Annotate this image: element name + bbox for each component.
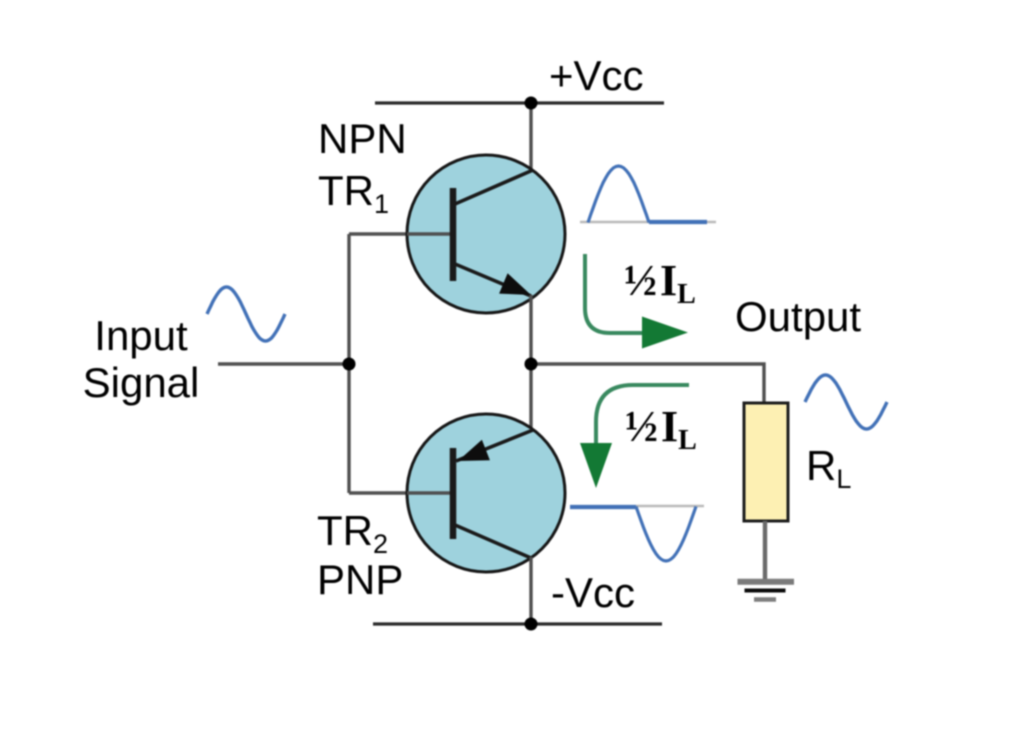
TR1 emitter arrow [499,273,531,295]
transistor TR1 (NPN) [407,155,565,313]
TR2 body circle [407,414,565,572]
node output junction [525,358,538,371]
waveform positive half-cycle [588,166,649,223]
waveform input sine [207,287,285,341]
svg-text:TR1: TR1 [318,167,389,219]
svg-text:Output: Output [735,293,861,340]
node input junction [343,358,356,371]
waveform negative half-cycle baseline [636,505,704,507]
TR1 emitter lead [455,264,531,296]
wire base bus vertical [347,234,350,493]
TR2 collector lead [455,525,531,558]
svg-text:NPN: NPN [318,115,407,162]
TR1 body circle [407,155,565,313]
svg-text:TR2: TR2 [317,507,388,559]
wire +Vcc rail to TR1 collector [529,103,532,172]
svg-text:+Vcc: +Vcc [549,52,644,99]
-Vcc power rail [373,622,662,625]
TR2 base bar [450,448,457,539]
TR1 base bar [450,188,457,281]
wire input signal lead [218,362,349,365]
wire TR1 emitter to output node [529,295,532,365]
svg-text:-Vcc: -Vcc [551,569,635,616]
svg-text:RL: RL [806,442,851,494]
waveform positive half-cycle baseline [580,221,716,223]
svg-text:Input: Input [94,312,188,359]
node +Vcc junction [525,97,538,110]
ground [738,582,795,600]
svg-text:½IL: ½IL [625,402,697,456]
node -Vcc junction [525,618,538,631]
waveform negative half-cycle [636,507,696,562]
svg-text:Signal: Signal [83,359,200,406]
wire RL to ground [763,521,767,579]
wire output to load [531,364,764,404]
TR1 collector lead [455,170,533,204]
waveform negative half-cycle flat segment [570,505,636,509]
waveform positive half-cycle flat segment [649,220,707,224]
+Vcc power rail [375,101,664,104]
wire output node to TR2 emitter [529,365,532,431]
TR2 emitter lead [456,430,533,461]
svg-text:PNP: PNP [317,556,403,603]
wire base to TR1 [349,232,451,235]
TR2 base lead [407,491,451,494]
svg-text:½IL: ½IL [624,256,696,310]
TR1 base lead [407,232,451,235]
TR2 emitter arrow [458,440,490,461]
transistor TR2 (PNP) [407,414,565,572]
current arrow half IL (TR2 path) [580,385,689,488]
wire TR2 collector to -Vcc rail [529,557,532,624]
resistor RL [744,403,788,521]
current arrow half IL (TR1 path) [585,254,688,349]
wire base to TR2 [349,491,451,494]
waveform output sine at RL [805,375,887,429]
